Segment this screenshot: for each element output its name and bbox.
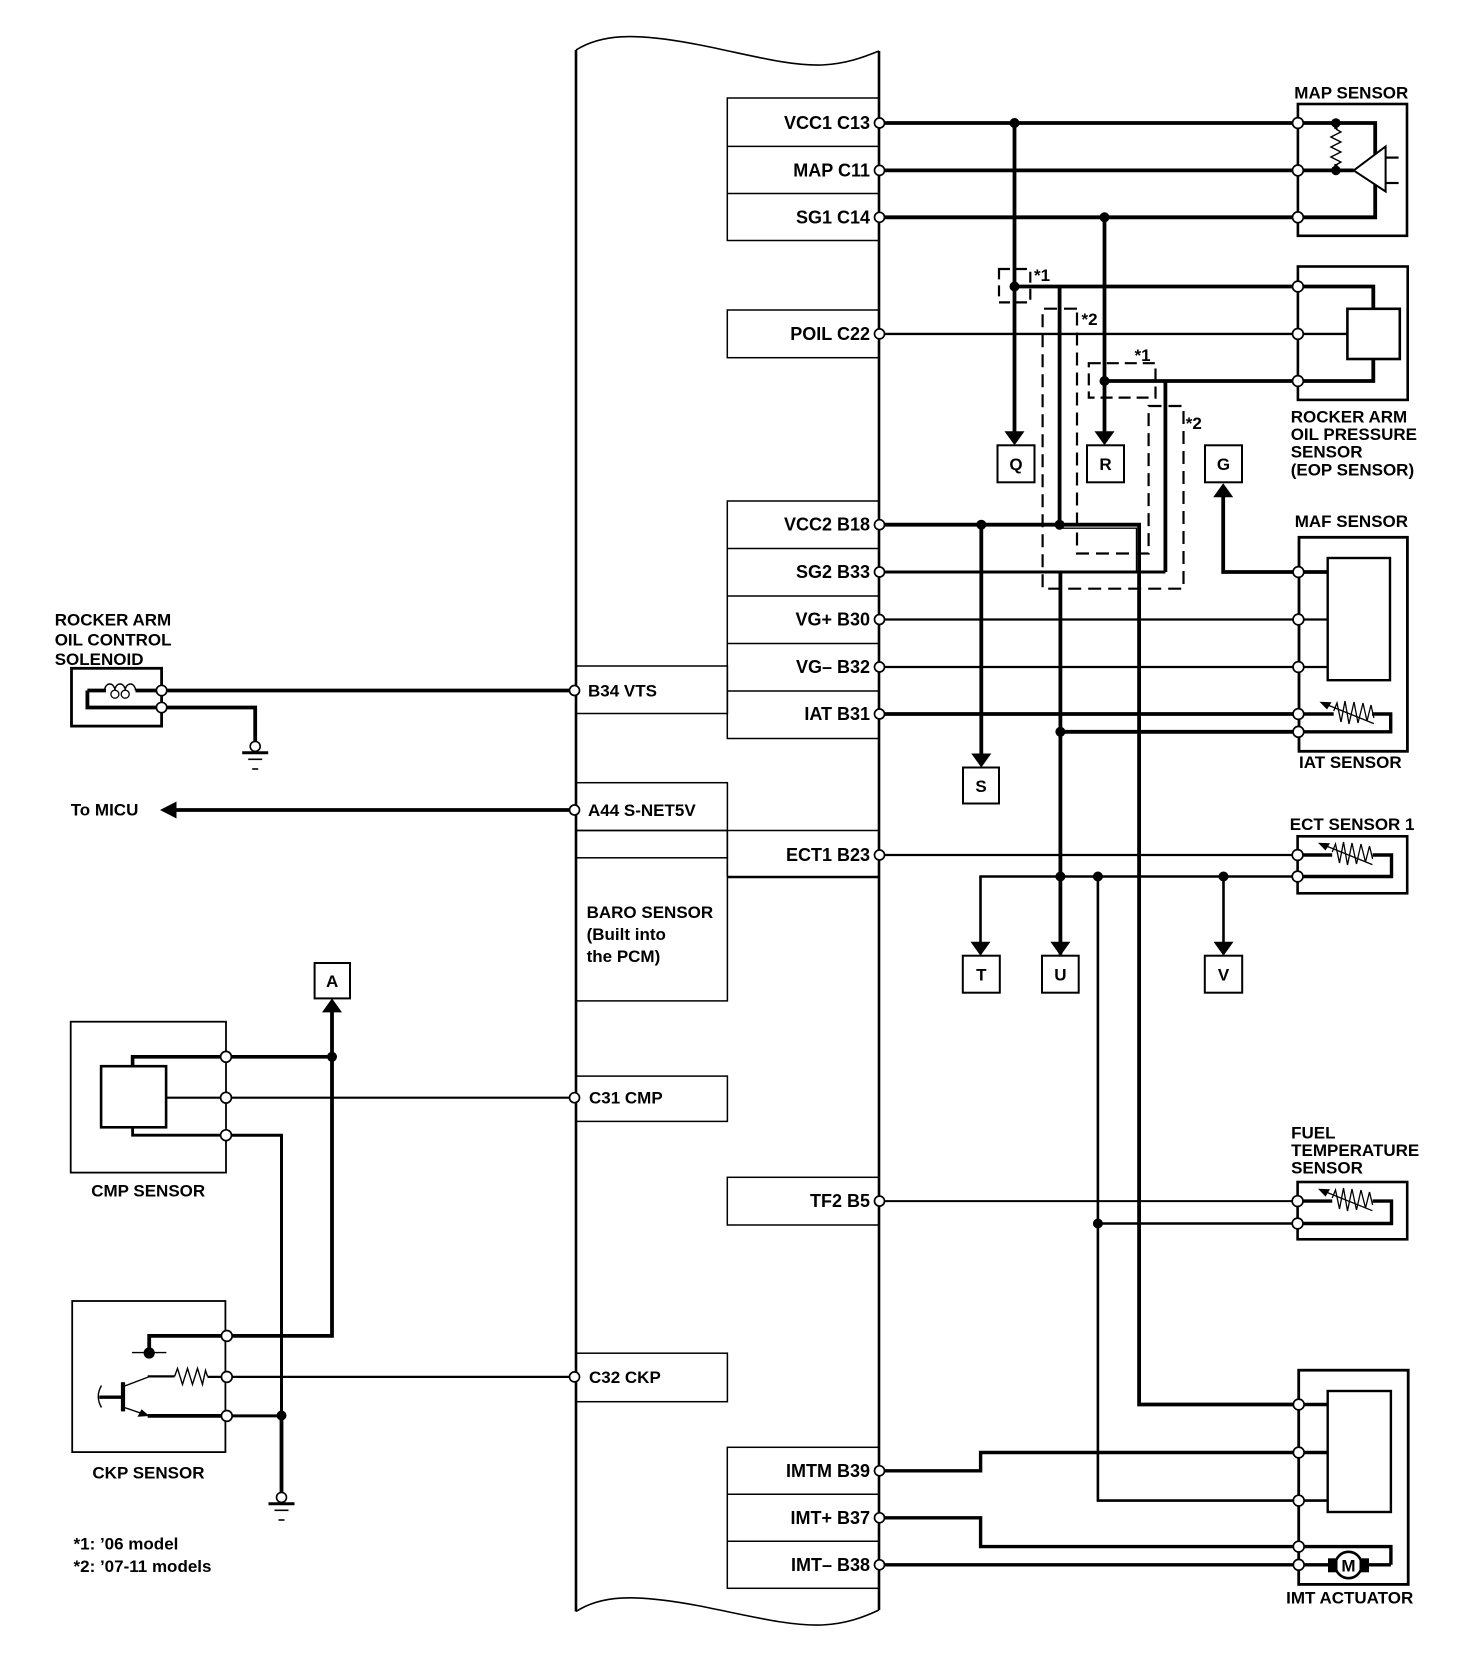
wire IMT internal pin1 (1299, 1403, 1328, 1406)
wire ECT thermistor lead right (1298, 855, 1392, 877)
wire IMT internal pin5 to motor (1299, 1563, 1330, 1566)
CKP coil resistor (175, 1368, 208, 1384)
CMP sensor pin 3 (221, 1130, 232, 1141)
CMP sensor pin 2 (221, 1092, 232, 1103)
connector box VCC2/SG2/VG+/VG-/IAT (727, 501, 879, 739)
wire VCC1 C13 to MAP sensor (880, 121, 1298, 125)
PCM left boundary (575, 50, 578, 1612)
arrow to MICU (160, 802, 177, 819)
wire fuel temp return row (1098, 1222, 1298, 1225)
wire *2 branch EOP top to VCC2 (1058, 287, 1062, 525)
junction EOP top wire at Q branch (1010, 282, 1020, 292)
wire CKP internal top (149, 1336, 227, 1348)
wire down to ground (280, 1416, 284, 1493)
IMT actuator pin 3 (1293, 1495, 1304, 1506)
svg-text:OIL PRESSURE: OIL PRESSURE (1291, 425, 1417, 444)
wire branch down to V (1222, 877, 1225, 943)
arrow into Q (1005, 431, 1025, 445)
svg-text:IMT ACTUATOR: IMT ACTUATOR (1286, 1589, 1413, 1608)
CKP transistor collector (125, 1377, 149, 1386)
CKP pickup dot (144, 1347, 155, 1358)
svg-text:*1: *1 (1034, 266, 1050, 285)
dashed box *1 '06 model at Q branch (999, 269, 1030, 302)
wire CMP internal top (133, 1057, 226, 1066)
svg-text:M: M (1341, 1557, 1355, 1576)
junction IMT branch on ECT return (1093, 872, 1103, 882)
wire IMT internal pin4 to motor (1299, 1547, 1391, 1565)
ECT thermistor zigzag (1332, 842, 1372, 865)
svg-text:*2: *2 (1186, 414, 1202, 433)
connector ref box S (963, 768, 999, 804)
ECT sensor 1 outline (1298, 836, 1408, 893)
wire IAT thermistor lead right (1298, 714, 1390, 732)
MAF sensor pin 2 (1293, 614, 1304, 625)
arrow into V (1214, 942, 1234, 956)
svg-text:POIL C22: POIL C22 (790, 324, 870, 344)
connector box POIL C22 (727, 310, 879, 358)
IMT actuator pin 1 (1293, 1399, 1304, 1410)
solenoid L1 outline (72, 668, 162, 726)
wire ECT1 B23 to ECT sensor (880, 854, 1298, 856)
wire IAT B31 to MAF sensor (880, 712, 1299, 716)
wire CMP top to A line (226, 1055, 332, 1059)
wire fuel thermistor lead left (1298, 1199, 1333, 1202)
IAT thermistor arrow (1327, 705, 1374, 724)
wire TF2 B5 to fuel temperature sensor (880, 1200, 1298, 1202)
pin A44 (570, 805, 580, 815)
connector box C31 CMP (576, 1076, 727, 1121)
wire fuel thermistor lead right (1298, 1201, 1392, 1223)
wire IMTM B39 to IMT actuator pin2 (880, 1453, 1299, 1471)
resistor MAP internal (1334, 123, 1337, 129)
connector ref box R (1087, 445, 1124, 482)
dashed box *1 '06 model at R branch (1089, 363, 1156, 397)
CKP transistor base lead (99, 1395, 123, 1398)
wire VG+ B30 to MAF sensor (880, 618, 1299, 620)
wire ECT sensor return row (979, 875, 1297, 878)
svg-text:IMTM B39: IMTM B39 (786, 1461, 870, 1481)
fuel thermistor zigzag (1332, 1188, 1372, 1211)
svg-text:VG– B32: VG– B32 (796, 657, 870, 677)
pin B32 (875, 662, 885, 672)
wire EOP internal middle (1298, 333, 1348, 335)
svg-text:VG+ B30: VG+ B30 (795, 610, 870, 630)
connector ref box U (1042, 956, 1079, 993)
arrow into A from below (322, 998, 342, 1012)
PCM torn bottom edge (576, 1598, 879, 1625)
pin B33 (875, 567, 885, 577)
motor M in IMT actuator (1335, 1552, 1361, 1578)
ground G102 (277, 1492, 287, 1502)
MAF sensor pin 3 (1293, 662, 1304, 673)
PCM right boundary (878, 51, 881, 1610)
pin B39 (875, 1466, 885, 1476)
ECT sensor pin 1 (1292, 850, 1303, 861)
IMT actuator outline (1299, 1370, 1409, 1584)
svg-text:S: S (975, 777, 986, 796)
svg-text:MAP SENSOR: MAP SENSOR (1294, 83, 1408, 102)
pin B18 (875, 520, 885, 530)
wire SG1 branch down to R (1103, 217, 1107, 432)
svg-text:CMP SENSOR: CMP SENSOR (91, 1182, 205, 1201)
fuel temp sensor pin 2 (1292, 1218, 1303, 1229)
wire MAP C11 to MAP sensor (880, 168, 1298, 172)
wire CMP bottom to CKP return (226, 1135, 282, 1415)
junction SG1/R (1100, 212, 1110, 222)
pin B23 (875, 850, 885, 860)
wire SG1 C14 to MAP sensor (880, 215, 1298, 219)
wire IAT sensor return row (1060, 730, 1298, 734)
connector ref box Q (998, 445, 1035, 482)
solenoid pin 1 (156, 685, 166, 695)
connector ref box T (963, 956, 1000, 993)
svg-text:MAF SENSOR: MAF SENSOR (1295, 512, 1408, 531)
CMP sensor pin 1 (221, 1051, 232, 1062)
inductor coil (105, 684, 136, 691)
wire B34 VTS to solenoid (162, 689, 575, 693)
svg-text:IMT– B38: IMT– B38 (791, 1555, 870, 1575)
MAF sensor pin 1 (1293, 567, 1304, 578)
wire ECT return down to fuel temp and IMT pin3 (1098, 877, 1299, 1501)
EOP sensor pin 2 (1293, 329, 1304, 340)
connector box C32 CKP (576, 1353, 727, 1402)
wire MAF internal pin2 (1298, 618, 1327, 620)
wire G to MAF sensor (1223, 496, 1298, 572)
pin C14 (875, 212, 885, 222)
svg-text:To MICU: To MICU (71, 800, 139, 819)
wire EOP sensor top row (1015, 285, 1298, 289)
svg-text:IMT+ B37: IMT+ B37 (790, 1508, 870, 1528)
wire EOP internal bottom (1298, 359, 1373, 381)
pin B38 (875, 1560, 885, 1570)
svg-text:*2: ’07-11 models: *2: ’07-11 models (74, 1557, 212, 1576)
svg-text:A44 S-NET5V: A44 S-NET5V (588, 801, 696, 820)
CKP sensor pin 2 (221, 1372, 232, 1383)
arrow into R (1095, 431, 1115, 445)
pin B34 (570, 686, 580, 696)
CKP transistor bar (121, 1382, 125, 1411)
wire IAT thermistor lead left (1298, 712, 1333, 715)
wire CMP middle to C31 CMP (226, 1097, 575, 1099)
junction VCC1/Q (1010, 118, 1020, 128)
connector box TF2 B5 (727, 1177, 879, 1225)
wire CKP middle lead (148, 1375, 175, 1377)
wire VCC2 branch down to S (979, 525, 983, 755)
junction fuel temp return branch (1093, 1219, 1103, 1229)
wire IMT+ B37 to IMT actuator pin4 (880, 1518, 1299, 1547)
MAF sensor pin 4 IAT (1293, 709, 1304, 720)
svg-text:ECT1 B23: ECT1 B23 (786, 845, 870, 865)
wire MAP internal top rail (1298, 123, 1375, 217)
wire ECT thermistor lead left (1298, 853, 1333, 856)
fuel temperature sensor outline (1298, 1182, 1408, 1239)
svg-text:CKP SENSOR: CKP SENSOR (92, 1464, 204, 1483)
PCM torn top edge (576, 37, 879, 65)
svg-text:C32 CKP: C32 CKP (589, 1368, 661, 1387)
svg-text:IAT SENSOR: IAT SENSOR (1299, 753, 1402, 772)
full-width separator line at A44/ECT1 level (576, 830, 879, 832)
wire CKP top to A (227, 1011, 332, 1336)
connector box VCC1/MAP/SG1 (727, 98, 879, 241)
MAP buffer output pin upper (1386, 157, 1399, 159)
svg-text:T: T (976, 966, 987, 985)
dashed outline *2 '07-11 models (1043, 309, 1184, 589)
svg-text:*2: *2 (1082, 310, 1098, 329)
wire IMT internal pin3 (1299, 1499, 1328, 1502)
svg-text:R: R (1099, 455, 1111, 474)
wire CMP internal middle (166, 1097, 226, 1099)
fuel thermistor arrow (1325, 1192, 1372, 1211)
pin C32 (570, 1372, 580, 1382)
MAP buffer output pin lower (1386, 182, 1399, 184)
arrow into G from below (1213, 483, 1233, 497)
svg-text:SG1 C14: SG1 C14 (796, 207, 870, 227)
svg-text:OIL CONTROL: OIL CONTROL (55, 630, 172, 649)
solenoid pin 2 (156, 702, 166, 712)
wire MAF internal pin1 (1298, 570, 1327, 574)
IMT actuator pin 5 (1293, 1559, 1304, 1570)
CMP sensor inner element (101, 1066, 166, 1127)
wire thin link SG2 to VCC2 junction (1060, 528, 1137, 572)
IMT actuator inner module (1328, 1391, 1391, 1512)
svg-text:TF2 B5: TF2 B5 (810, 1191, 870, 1211)
wire EOP internal top (1298, 287, 1373, 309)
pin B5 (875, 1196, 885, 1206)
EOP sensor inner element (1347, 309, 1399, 359)
arrow into S (971, 754, 991, 768)
wire CKP return to ground (227, 1414, 282, 1417)
svg-text:ECT SENSOR 1: ECT SENSOR 1 (1290, 815, 1415, 834)
connector box A44 S-NET5V (576, 783, 727, 831)
wire IMT- B38 to IMT actuator pin5 (880, 1563, 1299, 1566)
svg-text:V: V (1218, 966, 1230, 985)
wire EOP sensor bottom row (1105, 379, 1298, 383)
svg-text:*1: *1 (1135, 346, 1151, 365)
svg-text:BARO SENSOR: BARO SENSOR (587, 903, 714, 922)
IMT actuator pin 4 (1293, 1541, 1304, 1552)
connector box IMTM/IMT+/IMT- (727, 1447, 879, 1588)
junction EOP bottom wire at R branch (1100, 376, 1110, 386)
wire branch down to T (979, 877, 982, 943)
svg-text:SG2 B33: SG2 B33 (796, 562, 870, 582)
left column spacer right edge (726, 831, 728, 858)
connector ref box A (315, 963, 350, 998)
wire *2 branch EOP bottom to SG2 (1164, 381, 1168, 572)
pin B30 (875, 615, 885, 625)
junction V branch on ECT return (1219, 872, 1229, 882)
EOP sensor pin 3 (1293, 376, 1304, 387)
svg-text:IAT B31: IAT B31 (804, 704, 870, 724)
wire solenoid internal (87, 689, 106, 693)
CKP sensor pin 3 (221, 1411, 232, 1422)
wire CMP internal bottom (133, 1127, 226, 1135)
svg-text:G: G (1217, 455, 1230, 474)
wire VCC2 B18 to IMT actuator pin1 (880, 525, 1299, 1405)
svg-text:(EOP SENSOR): (EOP SENSOR) (1291, 460, 1414, 479)
MAF sensor inner module (1328, 558, 1390, 680)
svg-text:Q: Q (1009, 455, 1022, 474)
pin B31 (875, 709, 885, 719)
svg-text:VCC2 B18: VCC2 B18 (784, 515, 870, 535)
MAP sensor pin 3 (1293, 212, 1304, 223)
fuel temp sensor pin 1 (1292, 1196, 1303, 1207)
pin C13 (875, 118, 885, 128)
MAP sensor outline (1298, 104, 1407, 236)
wire IMT internal pin2 (1299, 1451, 1328, 1454)
svg-text:A: A (326, 972, 338, 991)
svg-text:SENSOR: SENSOR (1291, 443, 1363, 462)
wire MAP internal middle (1298, 168, 1354, 172)
BARO sensor box (built into PCM) (576, 858, 727, 1001)
MAP sensor pin 2 (1293, 165, 1304, 176)
junction VCC2 at S branch (976, 520, 986, 530)
svg-text:MAP C11: MAP C11 (793, 160, 870, 180)
wire MAF internal pin3 (1298, 666, 1327, 668)
CKP transistor emitter with arrow (125, 1408, 148, 1416)
svg-text:SENSOR: SENSOR (1291, 1159, 1363, 1178)
arrow into T (971, 942, 991, 956)
ground G101 (250, 741, 260, 751)
pin C31 (570, 1093, 580, 1103)
junction CKP return at CMP ground line (277, 1411, 287, 1421)
MAP sensor pin 1 (1293, 118, 1304, 129)
pin C22 (875, 329, 885, 339)
svg-text:U: U (1054, 966, 1066, 985)
wire CKP bottom lead (148, 1414, 227, 1418)
wire POIL C22 to EOP sensor (880, 333, 1298, 335)
svg-text:ROCKER ARM: ROCKER ARM (1291, 407, 1407, 426)
wire SG2 B33 (880, 571, 1166, 574)
junction VCC1/resistor (1331, 118, 1341, 128)
junction U branch on ECT return (1055, 872, 1065, 882)
svg-text:B34 VTS: B34 VTS (588, 682, 657, 701)
IMT actuator pin 2 (1293, 1447, 1304, 1458)
wire VCC1 branch down to Q (1013, 123, 1017, 432)
connector ref box G (1205, 445, 1242, 482)
svg-text:(Built into: (Built into (587, 925, 666, 944)
pin B37 (875, 1513, 885, 1523)
op-amp buffer in MAP sensor (1354, 147, 1386, 192)
ECT thermistor arrow (1325, 846, 1372, 865)
svg-text:the PCM): the PCM) (587, 947, 661, 966)
junction VCC2 at *2 branch (1055, 520, 1065, 530)
svg-text:SOLENOID: SOLENOID (55, 650, 144, 669)
arrow into U (1050, 942, 1070, 956)
CKP pickup curve (98, 1386, 101, 1408)
pin C11 (875, 165, 885, 175)
connector ref box V (1205, 956, 1242, 993)
connector box B34 VTS (576, 666, 727, 714)
wire SG2 branch down to U and IAT return (1059, 572, 1063, 955)
IAT thermistor zigzag (1334, 701, 1374, 724)
connector box ECT1 B23 (726, 831, 728, 878)
wire VG- B32 to MAF sensor (880, 666, 1299, 668)
svg-text:*1: ’06 model: *1: ’06 model (74, 1535, 179, 1554)
EOP sensor pin 1 (1293, 281, 1304, 292)
svg-text:TEMPERATURE: TEMPERATURE (1291, 1141, 1419, 1160)
junction MAP/resistor (1331, 166, 1341, 176)
svg-text:C31 CMP: C31 CMP (589, 1089, 663, 1108)
CMP sensor outline (71, 1022, 226, 1173)
wire CKP middle to C32 CKP (208, 1376, 575, 1378)
ECT sensor pin 2 (1292, 871, 1303, 882)
EOP sensor outline (1298, 267, 1408, 400)
svg-text:VCC1 C13: VCC1 C13 (784, 113, 870, 133)
svg-text:FUEL: FUEL (1291, 1123, 1335, 1142)
wire solenoid to ground (162, 708, 256, 742)
MAF sensor pin 5 IAT return (1293, 726, 1304, 737)
wire A44 S-NET5V to MICU (176, 808, 575, 812)
CKP sensor outline (72, 1301, 225, 1452)
MAF sensor outline (1299, 537, 1407, 751)
svg-text:ROCKER ARM: ROCKER ARM (55, 611, 171, 630)
junction IAT return branch (1055, 727, 1065, 737)
CKP sensor pin 1 (221, 1331, 232, 1342)
junction CMP top wire at A line (327, 1052, 337, 1062)
